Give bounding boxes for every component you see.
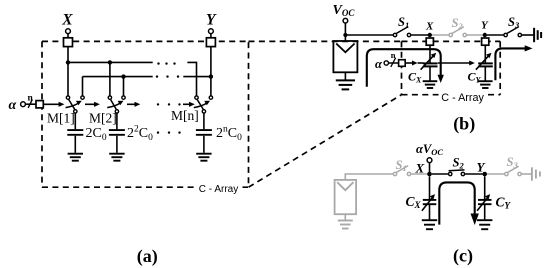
svg-text:X: X [425,21,434,33]
wire X to S2 grey [432,34,449,36]
wire M2 left contact [109,62,111,96]
ellipsis row2 [156,75,179,77]
svg-text:(c): (c) [453,245,473,266]
node on row2 at M2 [121,74,125,78]
arrow alpha to Cx [405,61,423,66]
switch M[2] [89,96,125,126]
right ground (b) [534,28,541,42]
wire Y vertical [210,47,212,96]
node at Voc [343,33,347,37]
grey transducer source (c) [335,180,357,214]
ground under CY (b) [478,81,493,88]
node Y (c) [482,172,487,177]
terminal square on border for alpha (a) [36,101,43,108]
wire S2 to Y (c) [465,173,483,175]
node on row1 at X [66,60,70,64]
varcap CY (c) [477,176,511,219]
grey wire S3 to right ground (c) [521,173,531,175]
node on row2 at Y [209,74,213,78]
ground under 2^nC0 [196,154,211,161]
terminal circle alpha-Voc (c) [427,158,432,163]
varcap CY (b) [468,53,493,85]
switch S3 [504,15,522,37]
terminal square alpha (b) [399,60,406,67]
input alpha (b) [375,57,399,71]
svg-text:M[2]: M[2] [89,111,117,126]
arrow Cx to Cy [438,61,475,66]
capacitor 2^2C0 [109,113,153,153]
grey wire S1 to X (c) [411,173,428,175]
wire S3 to right ground [522,34,534,36]
charge flow arch (c) [439,182,479,225]
input a (alpha) node (a) [9,98,37,113]
C-Array label (b) [439,90,488,104]
node Y (b) [483,33,487,37]
switch M[n] [171,96,213,123]
svg-text:(b): (b) [453,114,475,135]
terminal square X (b) [426,38,433,45]
wire Y to S3 [487,34,504,36]
svg-text:X: X [415,160,425,175]
bus-width slash n (b) [391,50,396,67]
ground under 2^2C0 [109,154,124,161]
svg-text:C - Array: C - Array [199,184,238,195]
ellipsis switch row [157,103,181,105]
switch S2 closed (c) [449,155,465,175]
ellipsis row1 [157,62,175,64]
control line arrow into M1 [43,102,64,107]
C-Array label (a) [196,183,243,196]
wire row2 right segment [183,76,211,78]
ground under CX (b) [423,81,438,88]
ground under CY (c) [477,220,492,229]
node X (b) [428,33,432,37]
ground under 2C0 [68,154,83,161]
grey switch S1 (c) [393,158,410,176]
dashed box of C-Array (a) [42,41,249,187]
wire X square down [429,45,431,63]
capacitor 2C0 [67,113,107,153]
wire row1 stub to Mn [187,62,196,96]
terminal Y [206,12,217,47]
grey ground under source (c) [338,221,353,229]
terminal X [61,12,73,47]
flow arrow out of array (b) [495,45,532,80]
svg-text:X: X [61,12,73,29]
wire Voc down [344,23,346,41]
wire S1 to X [411,34,428,36]
wire source to ground [344,72,346,80]
wire X to S2 (c) [432,173,449,175]
terminal square Y (b) [482,38,489,45]
switch S1 [393,15,410,37]
control line arrow into Mn [183,102,195,107]
svg-text:α: α [9,98,17,113]
svg-text:C - Array: C - Array [441,92,484,104]
grey wire Y to S3 (c) [487,173,505,175]
svg-text:(a): (a) [137,246,158,267]
bus-width slash n (a) [28,93,34,108]
varcap CX (b) [408,53,438,85]
grey wire source to ground (c) [344,214,346,220]
svg-text:n: n [391,50,396,60]
dashed box of C-Array (b) [402,41,501,94]
switch S2 (grey open) [449,16,466,37]
svg-text:M[n]: M[n] [171,108,199,123]
switch M[1] [47,96,84,126]
terminal Voc circle [343,18,348,23]
svg-text:α: α [375,57,383,71]
control line arrow M2 to dots [127,102,140,107]
grey right ground (c) [532,167,540,180]
ellipsis capacitor row [157,131,181,133]
wire M2 right contact [123,77,125,96]
wire M1 right contact [82,77,84,96]
ground under CX (c) [422,220,437,229]
node on row1 at M2 [108,60,112,64]
grey wire source to rail (c) [345,174,393,180]
flow arrow into array (b) [367,49,444,87]
wire top rail to S1 [345,34,393,36]
wire row1 bus [68,61,153,63]
svg-text:n: n [28,93,34,103]
wire Y square down [484,45,486,63]
capacitor 2^nC0 [196,113,242,153]
svg-text:Y: Y [206,12,217,29]
wire down to X (c) [429,163,431,174]
control line arrow M1 to M2 [85,102,100,107]
wire S2 to Y grey [466,34,482,36]
node X (c) [427,172,432,177]
grey switch S3 (c) [505,155,522,176]
ground under source [336,80,355,89]
transducer source box [333,41,357,72]
wire X vertical [67,47,69,96]
varcap CX (c) [406,176,437,219]
dashed diagonal link (a) corner to (b) array box [249,95,402,188]
svg-text:M[1]: M[1] [47,111,75,126]
dashed link line (a) top edge to (b) [249,40,402,42]
wire row2 bus [83,76,153,78]
